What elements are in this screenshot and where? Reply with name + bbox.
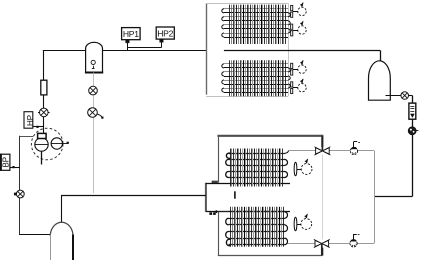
svg-text:HP2: HP2: [157, 29, 173, 39]
wire discharge header left: [43, 50, 86, 52]
wire receiver inlet: [380, 50, 382, 61]
cold room wall left upper: [218, 135, 220, 183]
svg-text:BP: BP: [1, 157, 10, 168]
wire BP riser bottom: [19, 198, 21, 235]
wire evaporator feed top: [288, 150, 374, 152]
condenser casing: [206, 3, 208, 94]
condenser fan M2: [291, 24, 293, 29]
wire HP1 tap: [127, 43, 129, 50]
compressor cylinder right: [51, 138, 62, 149]
compressor oil stub: [41, 151, 43, 164]
evaporator coil D: [229, 211, 285, 213]
hand valve V2: [350, 240, 357, 247]
wire discharge riser: [43, 50, 45, 80]
discharge service valve: [40, 108, 49, 117]
receiver outlet valve: [401, 92, 409, 100]
wire to accumulator: [19, 234, 50, 236]
hand valve V1: [350, 147, 357, 154]
expansion valve TXV1: [314, 147, 330, 155]
HP gauge: [24, 112, 33, 129]
cold room wall right segments: [321, 135, 323, 147]
wire liquid header: [224, 50, 380, 52]
evaporator fan M6: [294, 217, 297, 231]
evaporator coil C: [229, 153, 285, 155]
BP gauge: [1, 154, 10, 170]
liquid sight glass: [408, 127, 416, 135]
filter drier FD1: [409, 103, 416, 119]
wire suction line: [61, 195, 206, 197]
wire drier to sight glass: [412, 119, 414, 127]
plenum port mark: [234, 191, 236, 198]
wire liquid line left: [374, 196, 412, 198]
oil separator: [86, 42, 103, 72]
wire accumulator inlet: [61, 196, 63, 223]
wire HP gauge tap: [33, 126, 44, 128]
wire liquid line down: [412, 135, 414, 197]
wire BP gauge tap: [10, 167, 20, 169]
cold room wall top: [217, 135, 322, 137]
evaporator fan M5: [294, 162, 297, 176]
muffler (vibration absorber): [41, 80, 47, 95]
expansion valve TXV2: [314, 239, 330, 247]
condenser coil B: [224, 63, 288, 65]
svg-text:HP1: HP1: [123, 29, 139, 39]
wire distribution riser: [374, 151, 376, 243]
compressor terminal stub: [63, 143, 68, 145]
cold room wall left lower: [218, 212, 220, 255]
wire oil drain: [93, 73, 95, 194]
svg-text:HP: HP: [26, 115, 35, 126]
HP2 pressure switch: [156, 27, 174, 39]
condenser fan M1: [291, 6, 293, 11]
suction accumulator: [50, 222, 73, 236]
oil sight glass: [89, 86, 98, 95]
cold room wall bottom: [218, 255, 322, 257]
suction plenum: [206, 183, 238, 212]
wire discharge header: [103, 50, 207, 52]
wire evaporator feed bottom: [286, 243, 374, 245]
compressor cylinder left: [35, 138, 48, 151]
HP1 pressure switch: [122, 28, 141, 40]
suction line valve: [16, 190, 24, 198]
wire BP riser top: [19, 136, 21, 190]
wire to filter drier: [409, 95, 413, 97]
oil return valve: [88, 108, 98, 118]
condenser coil A: [224, 8, 288, 10]
liquid receiver: [369, 61, 391, 100]
condenser fan M3: [291, 63, 293, 68]
compressor suction box: [38, 133, 47, 138]
condenser fan M4: [291, 82, 293, 87]
wire receiver outlet: [386, 95, 401, 97]
wire HP2 tap: [161, 42, 163, 47]
compressor U1: [31, 128, 63, 160]
